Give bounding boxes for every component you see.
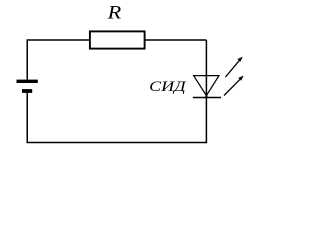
svg-text:СИД: СИД — [149, 79, 187, 95]
svg-text:R: R — [106, 2, 121, 23]
